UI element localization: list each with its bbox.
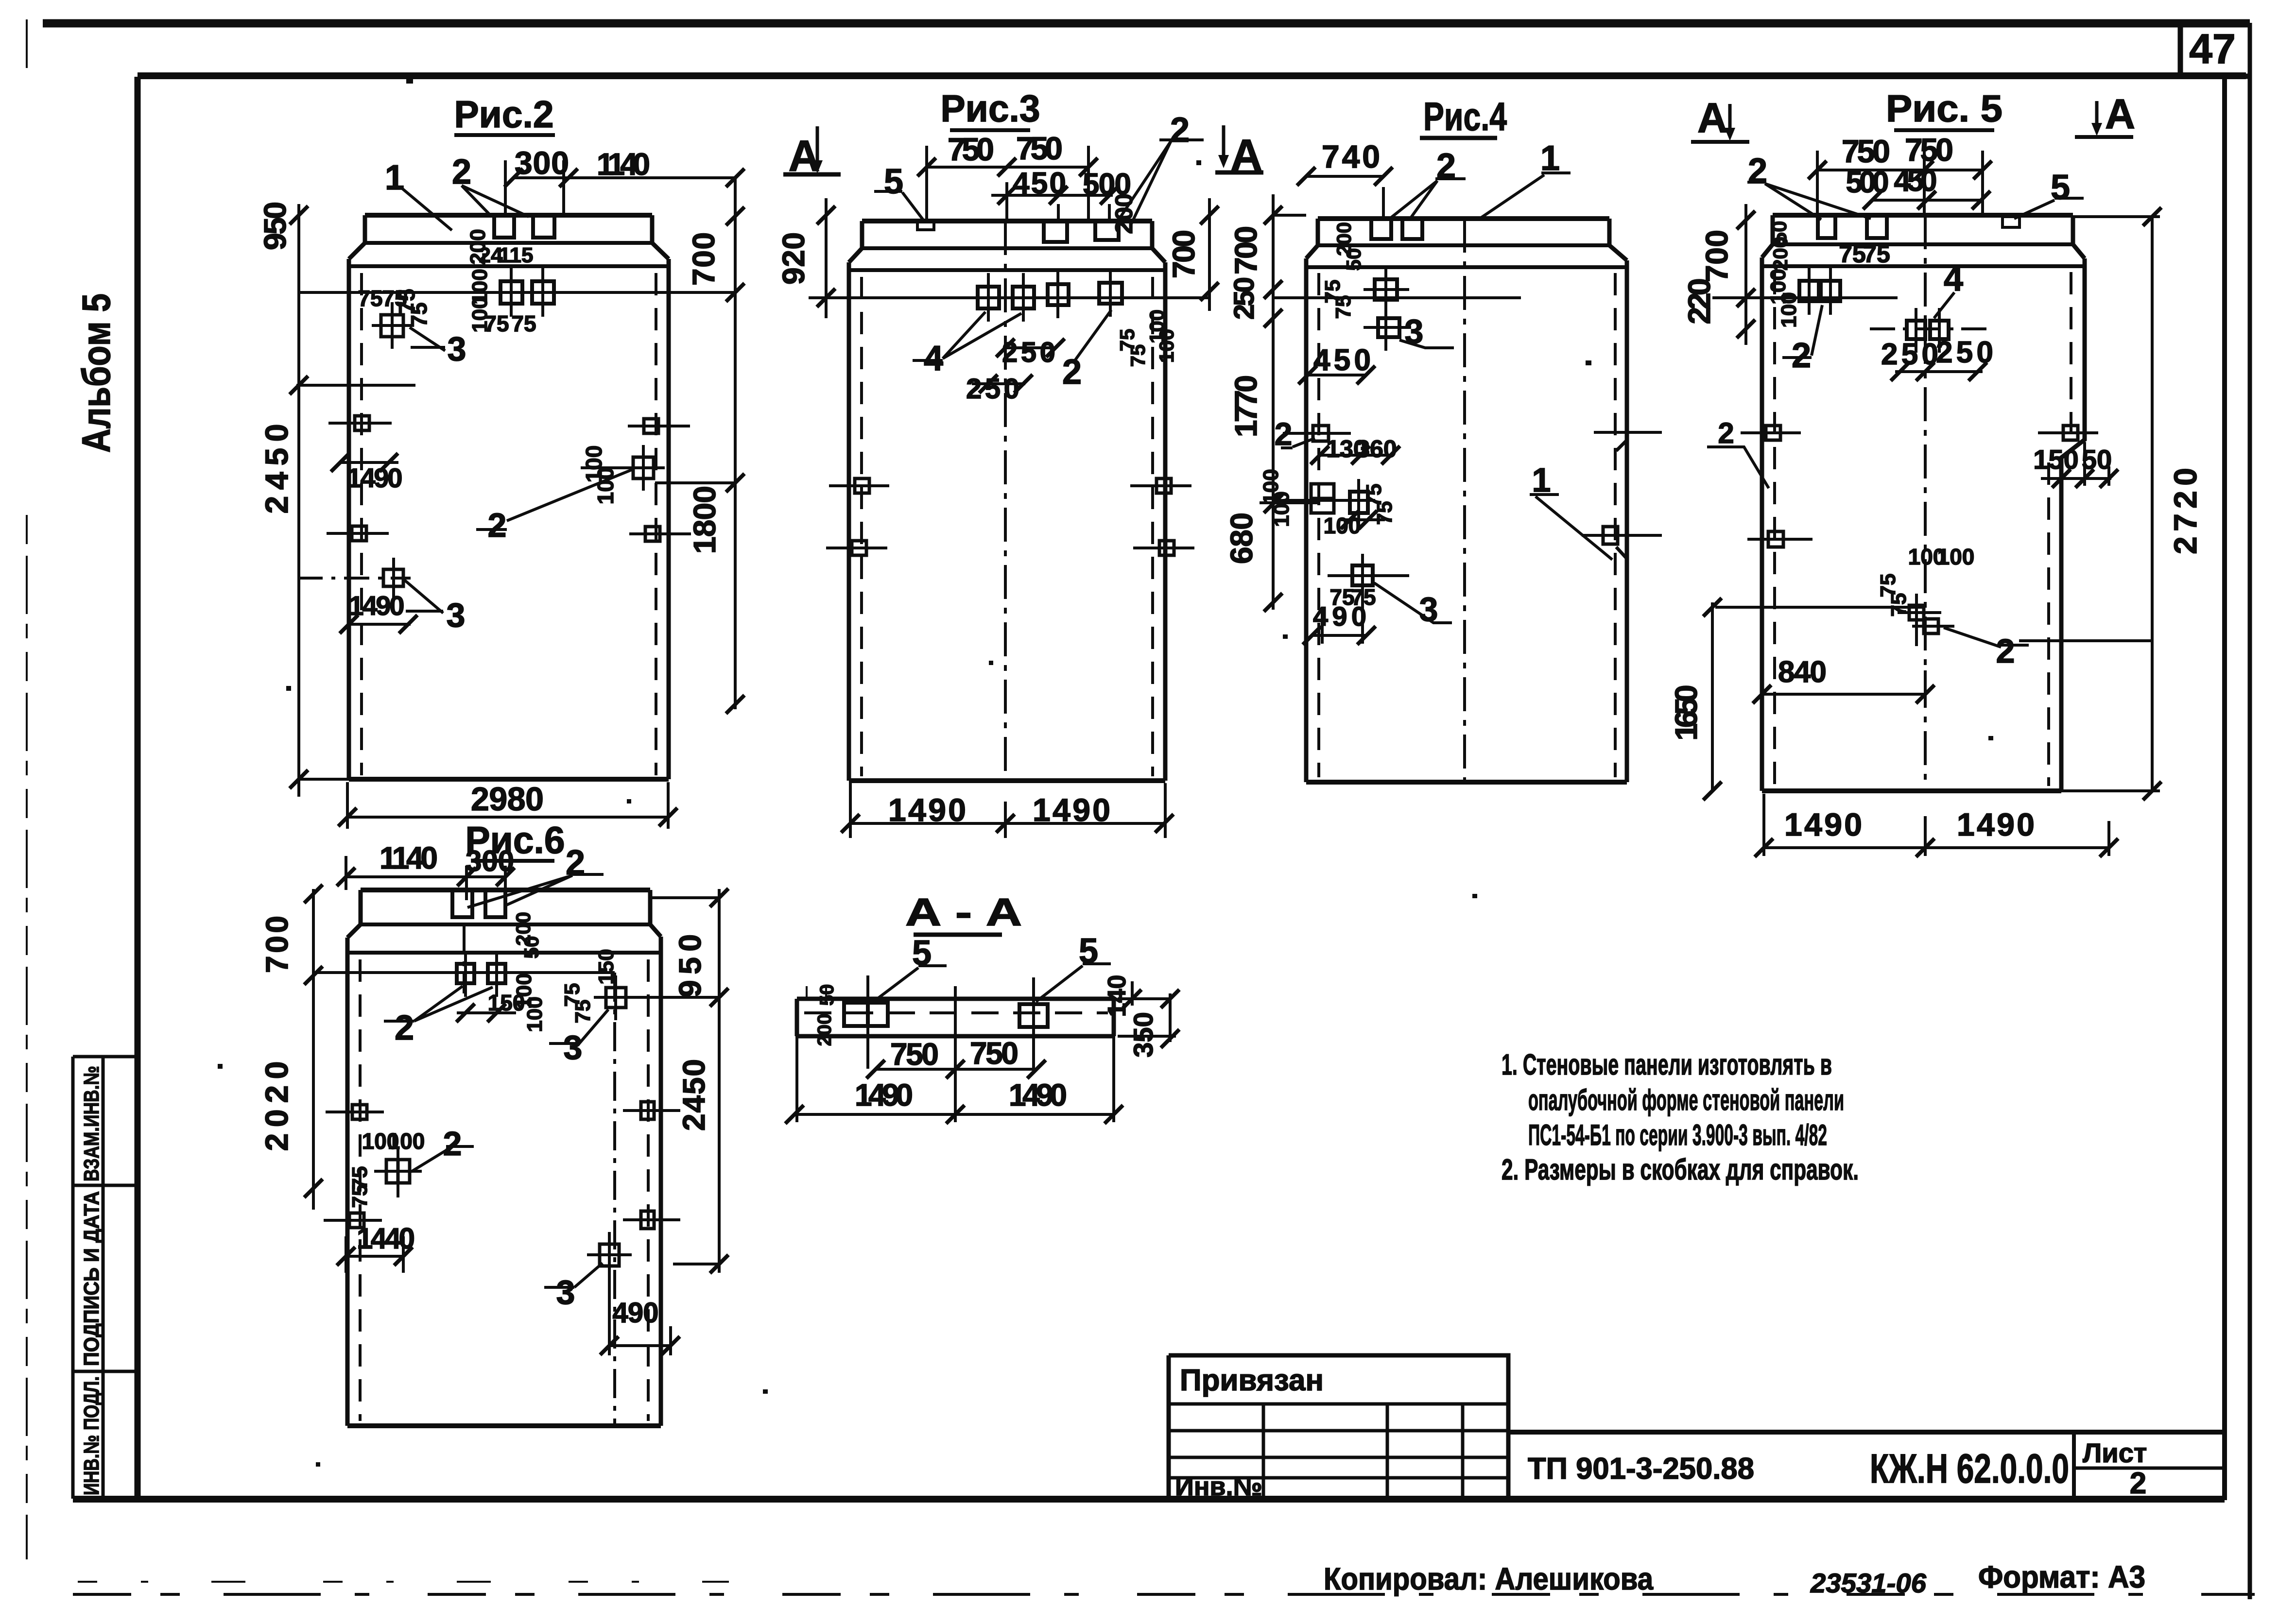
svg-text:1490: 1490 [349, 590, 405, 621]
svg-text:Лист: Лист [2083, 1437, 2147, 1468]
svg-text:2450: 2450 [676, 1059, 711, 1131]
svg-text:2: 2 [1792, 336, 1811, 375]
svg-text:2450: 2450 [259, 424, 294, 514]
svg-text:200: 200 [1110, 193, 1138, 234]
svg-text:ПС1-54-Б1 по серии 3.900-3 вып: ПС1-54-Б1 по серии 3.900-3 вып. 4/82 [1528, 1119, 1827, 1151]
svg-text:75: 75 [382, 286, 407, 311]
svg-text:2980: 2980 [471, 781, 544, 818]
svg-text:300: 300 [515, 145, 569, 181]
svg-text:Рис.3: Рис.3 [941, 87, 1040, 130]
svg-text:КЖ.Н 62.0.0.0: КЖ.Н 62.0.0.0 [1870, 1446, 2069, 1491]
svg-text:700: 700 [1166, 230, 1201, 278]
svg-text:750: 750 [1905, 132, 1953, 168]
svg-text:700: 700 [1228, 226, 1263, 274]
svg-text:750: 750 [970, 1036, 1019, 1071]
svg-text:200: 200 [814, 1014, 835, 1046]
svg-text:4: 4 [924, 339, 943, 378]
svg-text:140: 140 [1103, 975, 1131, 1017]
svg-text:2720: 2720 [2167, 468, 2203, 554]
svg-text:2: 2 [1062, 353, 1082, 392]
svg-text:1490: 1490 [347, 462, 403, 493]
svg-text:5: 5 [2051, 168, 2070, 207]
svg-text:115: 115 [499, 243, 534, 267]
svg-text:Альбом 5: Альбом 5 [74, 293, 119, 453]
svg-text:1490: 1490 [855, 1077, 913, 1112]
svg-text:100: 100 [388, 1128, 425, 1154]
svg-text:750: 750 [1842, 133, 1890, 169]
svg-text:5: 5 [1079, 932, 1098, 971]
svg-text:2: 2 [566, 843, 585, 882]
svg-text:300: 300 [466, 845, 514, 877]
svg-text:700: 700 [259, 916, 294, 973]
svg-text:ИНВ.№ ПОДЛ.: ИНВ.№ ПОДЛ. [80, 1376, 104, 1495]
svg-text:23531-06: 23531-06 [1810, 1568, 1927, 1598]
svg-text:75: 75 [1331, 295, 1355, 319]
svg-text:100: 100 [1270, 491, 1294, 527]
svg-text:490: 490 [1313, 601, 1366, 632]
svg-text:3: 3 [1405, 312, 1424, 350]
svg-text:840: 840 [1778, 655, 1827, 689]
svg-text:Копировал: Алешикова: Копировал: Алешикова [1324, 1561, 1653, 1596]
svg-text:А: А [1231, 131, 1262, 180]
svg-text:250: 250 [966, 373, 1019, 405]
svg-text:4: 4 [1944, 259, 1963, 298]
svg-text:2: 2 [488, 506, 507, 544]
svg-text:680: 680 [1224, 513, 1259, 564]
svg-text:2: 2 [1748, 152, 1767, 190]
svg-text:50: 50 [816, 984, 838, 1006]
svg-text:47: 47 [2189, 26, 2236, 72]
svg-text:2: 2 [1996, 632, 2015, 670]
svg-text:50: 50 [520, 936, 543, 959]
svg-text:А: А [789, 132, 820, 181]
svg-text:250: 250 [1936, 336, 1993, 369]
svg-text:100: 100 [593, 467, 618, 505]
svg-text:740: 740 [1322, 138, 1380, 174]
svg-text:75: 75 [511, 311, 536, 336]
svg-text:опалубочной форме стеновой пан: опалубочной форме стеновой панели [1528, 1084, 1844, 1116]
svg-text:Рис.2: Рис.2 [454, 93, 554, 136]
svg-text:50: 50 [2082, 444, 2112, 475]
svg-text:75: 75 [406, 302, 432, 327]
svg-text:950: 950 [258, 202, 293, 250]
svg-text:ВЗАМ.ИНВ.№: ВЗАМ.ИНВ.№ [80, 1066, 104, 1181]
svg-text:2: 2 [1436, 147, 1456, 186]
svg-text:1490: 1490 [1009, 1077, 1067, 1112]
svg-text:75: 75 [1373, 501, 1397, 525]
svg-text:75: 75 [358, 286, 382, 311]
svg-text:1: 1 [385, 158, 404, 197]
svg-text:50: 50 [1342, 248, 1365, 271]
svg-text:ТП 901-3-250.88: ТП 901-3-250.88 [1528, 1452, 1754, 1486]
svg-text:350: 350 [1128, 1012, 1158, 1057]
svg-text:Инв.№: Инв.№ [1175, 1472, 1262, 1501]
svg-text:950: 950 [673, 934, 708, 997]
svg-text:5: 5 [884, 162, 903, 201]
svg-text:220: 220 [1682, 278, 1717, 325]
svg-text:1140: 1140 [380, 840, 438, 875]
svg-text:75: 75 [571, 1000, 595, 1024]
svg-text:450: 450 [1894, 164, 1937, 198]
svg-text:450: 450 [1013, 167, 1066, 200]
svg-text:3: 3 [564, 1028, 583, 1066]
svg-text:2020: 2020 [259, 1061, 294, 1151]
svg-text:1: 1 [1540, 139, 1560, 178]
svg-text:А: А [2105, 91, 2135, 137]
svg-text:700: 700 [686, 232, 721, 286]
svg-text:1490: 1490 [1957, 806, 2035, 842]
svg-text:ПОДПИСЬ И ДАТА: ПОДПИСЬ И ДАТА [80, 1191, 104, 1366]
svg-text:2: 2 [1718, 417, 1734, 449]
svg-text:250: 250 [1002, 337, 1055, 368]
svg-text:100: 100 [1155, 329, 1178, 363]
svg-text:Рис. 5: Рис. 5 [1886, 87, 2003, 130]
svg-text:490: 490 [613, 1297, 659, 1329]
svg-text:1770: 1770 [1228, 375, 1263, 437]
svg-text:100: 100 [523, 996, 547, 1032]
svg-text:700: 700 [1699, 230, 1734, 282]
svg-text:75: 75 [1126, 344, 1149, 367]
svg-text:75: 75 [1839, 240, 1866, 268]
svg-text:100: 100 [1324, 513, 1361, 538]
svg-text:100: 100 [1777, 292, 1801, 327]
svg-text:А - А: А - А [905, 890, 1022, 934]
svg-text:150: 150 [594, 949, 618, 984]
svg-text:1440: 1440 [357, 1222, 415, 1255]
svg-text:750: 750 [1016, 130, 1063, 166]
svg-text:Привязан: Привязан [1180, 1364, 1324, 1397]
svg-text:150: 150 [2033, 444, 2078, 475]
svg-text:360: 360 [1356, 435, 1397, 462]
svg-text:1650: 1650 [1669, 685, 1704, 741]
svg-text:75: 75 [484, 311, 509, 336]
svg-text:250: 250 [1228, 277, 1260, 320]
svg-text:450: 450 [1313, 343, 1371, 377]
svg-text:3: 3 [448, 330, 466, 368]
svg-text:750: 750 [890, 1037, 939, 1072]
svg-text:3: 3 [447, 596, 466, 634]
svg-text:75: 75 [1887, 593, 1911, 617]
svg-text:200: 200 [1769, 237, 1792, 271]
svg-text:2. Размеры в скобках для справ: 2. Размеры в скобках для справок. [1502, 1153, 1859, 1186]
svg-text:1. Стеновые панели изготовлять: 1. Стеновые панели изготовлять в [1502, 1048, 1832, 1081]
svg-text:75: 75 [348, 1184, 372, 1208]
svg-text:Формат: А3: Формат: А3 [1978, 1559, 2145, 1594]
svg-text:2: 2 [2130, 1467, 2146, 1500]
svg-text:100: 100 [1937, 544, 1975, 569]
svg-text:3: 3 [556, 1273, 575, 1311]
svg-text:А: А [1697, 95, 1727, 141]
svg-text:75: 75 [1863, 240, 1890, 268]
svg-text:5: 5 [912, 934, 932, 973]
svg-text:2: 2 [1275, 416, 1293, 452]
svg-text:2: 2 [1170, 111, 1190, 150]
svg-text:920: 920 [776, 232, 811, 285]
svg-text:2: 2 [443, 1125, 462, 1163]
svg-text:1140: 1140 [597, 147, 650, 182]
svg-text:Рис.4: Рис.4 [1423, 95, 1507, 139]
svg-text:1: 1 [1532, 461, 1551, 499]
svg-text:500: 500 [1846, 166, 1889, 199]
svg-text:2: 2 [395, 1009, 414, 1047]
svg-text:3: 3 [1419, 590, 1438, 628]
svg-text:1800: 1800 [687, 486, 722, 554]
svg-text:2: 2 [452, 153, 471, 191]
svg-text:250: 250 [1881, 338, 1938, 371]
svg-text:1490: 1490 [1784, 806, 1862, 842]
svg-text:750: 750 [948, 131, 994, 167]
